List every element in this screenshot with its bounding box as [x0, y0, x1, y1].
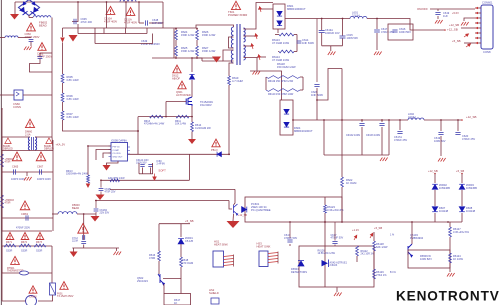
- wire primary top pin: [228, 25, 234, 27]
- wire: [2, 300, 26, 302]
- svg-text:PW VD: PW VD: [113, 147, 121, 149]
- wire left rail: [1, 108, 3, 273]
- wire R61Q line: [101, 179, 189, 181]
- capacitor C620: [455, 133, 460, 135]
- capacitor C617A: [397, 132, 402, 134]
- diode D601b: [277, 21, 282, 26]
- pin down arrow: [86, 184, 91, 189]
- svg-text:R616470R: R616470R: [149, 253, 156, 260]
- warning D613: [212, 139, 220, 147]
- resistor R6128: [373, 241, 376, 251]
- capacitor CM63: [26, 215, 28, 220]
- ground: [227, 221, 240, 228]
- wire: [26, 172, 28, 176]
- wire opto feed line: [110, 188, 235, 190]
- wire: [316, 88, 318, 120]
- ground: [334, 293, 342, 297]
- wire: [191, 80, 193, 97]
- ground: [114, 252, 122, 256]
- wire: [342, 19, 344, 36]
- wire: [0, 94, 14, 96]
- bridge diode: [19, 7, 27, 15]
- svg-text:C6163 100N: C6163 100N: [366, 134, 380, 137]
- wire: [180, 277, 182, 279]
- bridge rectifier D602: [19, 0, 40, 16]
- wire: [381, 120, 383, 122]
- wire: [341, 187, 343, 197]
- resistor R607: [61, 111, 64, 120]
- resistor R61Q: [110, 179, 120, 182]
- svg-text:+5.6V: +5.6V: [452, 11, 459, 15]
- transformer T601 aux winding: [231, 50, 233, 63]
- capacitor CY600a: [83, 235, 85, 240]
- pin +1.2V: [353, 235, 358, 241]
- wire: [229, 201, 232, 210]
- wire: [294, 34, 297, 36]
- fuse F601: [50, 283, 56, 295]
- box D604: [280, 100, 293, 135]
- box D601: [273, 4, 285, 29]
- zener ZD601: [178, 239, 184, 244]
- svg-text:S33R: S33R: [6, 250, 12, 253]
- wire: [361, 120, 363, 122]
- wire: [434, 190, 436, 206]
- resistor R626: [196, 30, 199, 40]
- resistor R619: [228, 76, 231, 85]
- box R6509: [408, 250, 450, 268]
- pin tap2: [254, 33, 258, 39]
- wire: [163, 278, 181, 280]
- warning AC2: [126, 7, 135, 15]
- wire: [159, 223, 190, 225]
- zener ZD603: [459, 184, 465, 189]
- connector CN60: [14, 90, 23, 100]
- wire: [316, 19, 318, 83]
- wire: [258, 8, 273, 10]
- wire: [196, 29, 198, 31]
- connector CON601: [481, 5, 493, 49]
- ground: [461, 22, 469, 26]
- wire: [137, 117, 139, 155]
- resistor R672: [19, 244, 31, 247]
- wire Y-cap feed: [83, 214, 85, 240]
- wire: [277, 29, 279, 33]
- svg-text:IC60B DAP8A: IC60B DAP8A: [111, 140, 127, 143]
- wire source: [191, 106, 193, 122]
- wire right rail upper: [51, 95, 53, 137]
- wire: [361, 127, 363, 155]
- resistor R6119: [266, 76, 300, 79]
- wire: [116, 248, 118, 251]
- capacitor C613: [319, 31, 325, 33]
- capacitor C61B4: [94, 209, 99, 211]
- svg-text:R672: R672: [21, 241, 28, 244]
- wire: [180, 267, 182, 277]
- ground: [96, 195, 105, 201]
- svg-text:S33R: S33R: [21, 250, 27, 253]
- svg-text:+12_SB: +12_SB: [238, 214, 247, 217]
- resistor R6120: [266, 89, 300, 92]
- ground: [435, 20, 443, 24]
- wire: [373, 232, 375, 241]
- inductor L601: [350, 16, 367, 18]
- wire: [196, 56, 198, 58]
- box PC601: [245, 197, 342, 222]
- wire gate: [166, 101, 186, 103]
- ground: [380, 158, 388, 162]
- wire: [163, 284, 165, 294]
- wire IC gnd: [107, 161, 119, 165]
- svg-text:SOFT: SOFT: [158, 169, 166, 173]
- capacitor C615: [340, 36, 346, 38]
- svg-text:+5_SB: +5_SB: [456, 169, 464, 173]
- wire: [38, 295, 53, 301]
- ground: [188, 139, 196, 144]
- resistor R6122: [356, 246, 359, 256]
- wire: [152, 163, 154, 174]
- warning R672: [21, 233, 29, 240]
- wire PB line: [128, 153, 231, 155]
- wire: [40, 52, 52, 54]
- svg-text:C6162 100N: C6162 100N: [346, 134, 360, 137]
- heatsink HS1: [213, 251, 224, 267]
- capacitor C6163: [379, 124, 384, 126]
- wire FB bottom rail: [342, 221, 462, 223]
- capacitor C617b: [332, 242, 337, 244]
- thermistor RT601: [20, 271, 29, 275]
- wire: [461, 190, 463, 206]
- warning C662: [38, 43, 46, 51]
- wire IC pin1: [88, 146, 111, 175]
- wire: [399, 120, 401, 130]
- svg-text:S33R: S33R: [36, 250, 42, 253]
- wire secondary tap 2: [244, 35, 259, 37]
- transformer T601 primary winding: [231, 27, 233, 48]
- wire IC pin3: [103, 153, 111, 158]
- wire: [149, 22, 163, 24]
- wire +5V rail 2: [367, 19, 413, 31]
- sheet border: [0, 0, 2, 305]
- warning CM63: [20, 201, 30, 210]
- resistor R618: [180, 257, 183, 267]
- wire startup vertical: [62, 43, 64, 75]
- wire: [180, 244, 182, 257]
- resistor R616: [158, 251, 161, 261]
- capacitor C662: [38, 57, 43, 59]
- wire: [449, 222, 451, 227]
- wire: [202, 60, 223, 62]
- diode D601a: [277, 11, 282, 16]
- resistor R671: [4, 244, 16, 247]
- wire: [62, 28, 64, 37]
- warning CX600: [29, 286, 37, 293]
- capacitor C614: [297, 41, 302, 43]
- inductor L601B top: [120, 0, 136, 2]
- pin arrow: [463, 33, 469, 38]
- wire: [125, 2, 127, 28]
- ground: [374, 52, 382, 56]
- wire: [2, 272, 20, 274]
- warning C660: [27, 23, 36, 31]
- svg-text:CS VDD: CS VDD: [113, 153, 122, 155]
- ground: [328, 52, 336, 56]
- wire: [289, 244, 291, 246]
- wire: [440, 120, 442, 131]
- wire: [265, 77, 267, 90]
- wire to D604: [250, 71, 282, 100]
- ground: [103, 165, 111, 171]
- wire: [388, 120, 390, 155]
- wire gate drive: [165, 102, 167, 117]
- wire: [51, 246, 53, 273]
- pin CON601-2: [475, 12, 481, 14]
- capacitor C619: [435, 13, 440, 15]
- svg-text:KENOTRONTV: KENOTRONTV: [396, 289, 500, 304]
- wire bottom pin: [229, 63, 234, 76]
- wire: [294, 51, 297, 53]
- capacitor C665: [14, 169, 16, 174]
- wire: [150, 168, 152, 174]
- wire rail2 return: [324, 154, 389, 156]
- svg-text:+12_SB: +12_SB: [447, 28, 458, 32]
- transformer LF601 common-mode choke core: [32, 137, 34, 150]
- wire filter return: [322, 45, 343, 47]
- svg-text:+12_SB: +12_SB: [449, 23, 459, 27]
- wire: [158, 224, 160, 251]
- resistor R611: [176, 115, 189, 118]
- svg-text:CN60CONN: CN60CONN: [13, 102, 21, 109]
- wire: [437, 9, 439, 11]
- svg-text:CM63: CM63: [21, 212, 28, 216]
- svg-text:B 1%: B 1%: [390, 271, 397, 274]
- wire AC line right: [51, 18, 53, 96]
- wire: [35, 136, 52, 138]
- wire IC pin2: [96, 150, 111, 161]
- wire rung4: [2, 245, 52, 247]
- wire: [95, 212, 97, 216]
- wire secondary tap 1: [244, 3, 274, 30]
- wire left rail seg: [1, 151, 3, 232]
- inductor FB602: [33, 16, 51, 18]
- wire feedback hook: [317, 69, 342, 101]
- svg-text:CX600: CX600: [29, 296, 37, 299]
- wire: [356, 256, 358, 262]
- wire CS rail: [138, 116, 192, 118]
- svg-text:R6509 W100N BAY: R6509 W100N BAY: [420, 254, 432, 261]
- svg-text:CON601: CON601: [482, 1, 493, 5]
- wire secondary tap 3: [244, 45, 253, 47]
- pin CON601-5: [475, 27, 481, 29]
- wire: [376, 19, 378, 30]
- resistor R602: [1, 154, 4, 167]
- diode D613: [217, 152, 221, 157]
- wire: [52, 137, 53, 151]
- wire: [73, 248, 75, 252]
- warning Q601: [178, 81, 186, 89]
- wire: [381, 127, 383, 155]
- wire: [300, 89, 303, 91]
- wire feedback vertical: [341, 69, 343, 178]
- wire rung: [2, 150, 53, 152]
- wire AC line left: [0, 37, 5, 39]
- wire Q6103 collector: [411, 222, 413, 244]
- wire: [139, 22, 144, 24]
- wire: [228, 85, 230, 154]
- capacitor C648: [146, 20, 148, 25]
- wire: [28, 15, 30, 18]
- ground earth: [70, 252, 78, 258]
- wire: [51, 273, 53, 283]
- transistor PC601 output: [234, 204, 238, 215]
- junctions: [77, 1, 79, 3]
- LED PC601: [242, 207, 247, 213]
- wire: [100, 192, 102, 195]
- inductor L602: [408, 118, 424, 120]
- wire: [334, 245, 336, 247]
- wire: [275, 34, 279, 36]
- capacitor C667: [40, 169, 42, 174]
- capacitor C61A5: [148, 165, 152, 167]
- diode D608: [459, 207, 465, 212]
- wire: [146, 28, 148, 34]
- svg-text:+5_SB: +5_SB: [374, 226, 382, 230]
- inductor FB600: [58, 212, 77, 214]
- wire rail C: [95, 43, 153, 45]
- pin CON601-6: [475, 32, 481, 34]
- resistor R6123: [324, 205, 327, 213]
- wire: [321, 33, 323, 46]
- wire: [330, 46, 332, 51]
- heatsink HS1 pins: [224, 256, 234, 266]
- wire: [106, 2, 108, 28]
- wire X-cap line: [2, 171, 53, 173]
- box C616: [388, 24, 413, 40]
- wire bulk rail: [63, 25, 229, 28]
- ground: [447, 273, 455, 277]
- box R617: [164, 294, 191, 305]
- wire: [100, 180, 102, 187]
- svg-text:+5_SB: +5_SB: [185, 219, 194, 223]
- wire secondary tap 4: [244, 58, 258, 71]
- wire: [461, 213, 463, 222]
- wire rail y58: [152, 57, 218, 59]
- warning small left: [5, 138, 11, 144]
- svg-text:PB-Q: PB-Q: [211, 148, 218, 152]
- transformer T601 core: [237, 24, 240, 65]
- transformer T601 secondary winding 2: [244, 45, 246, 60]
- wire: [188, 154, 190, 180]
- wire: [175, 40, 177, 46]
- wire ON/OFF: [430, 8, 475, 10]
- svg-text:R671: R671: [6, 241, 13, 244]
- wire: [336, 288, 338, 293]
- ground: [438, 158, 446, 162]
- warning F601: [60, 282, 68, 290]
- wire: [434, 213, 436, 222]
- capacitor C619B: [438, 133, 443, 135]
- resistor R622: [341, 177, 344, 187]
- wire: [52, 140, 54, 151]
- wire rail B: [78, 33, 147, 35]
- svg-text:+12_SB: +12_SB: [466, 115, 476, 119]
- wire: [30, 59, 53, 73]
- wire R6123 branch down: [324, 222, 326, 287]
- diode D607: [432, 207, 438, 212]
- wire: [461, 174, 463, 184]
- wire: [464, 42, 475, 44]
- wire: [434, 174, 436, 184]
- IC600 controller: [111, 143, 128, 162]
- wire: [103, 28, 105, 34]
- warning RT601: [11, 256, 20, 264]
- svg-text:100PF 400V: 100PF 400V: [37, 178, 51, 181]
- wire: [321, 19, 323, 31]
- warning small right: [46, 138, 52, 144]
- wire rung3: [2, 230, 52, 232]
- svg-text:R6120 150 OHM 1/4W: R6120 150 OHM 1/4W: [268, 93, 294, 96]
- wire: [125, 28, 127, 34]
- wire: [342, 39, 344, 46]
- zener ZD602: [432, 184, 438, 189]
- capacitor C61A4: [140, 165, 144, 167]
- heatsink HS2 glyph: [211, 298, 219, 304]
- wire +12V rail 2: [424, 119, 462, 121]
- svg-text:R673: R673: [36, 241, 43, 244]
- resistor R624: [175, 30, 178, 40]
- wire to +12_SB: [413, 29, 445, 31]
- wire: [83, 245, 85, 249]
- wire: [278, 51, 279, 53]
- wire primary tap: [229, 37, 234, 48]
- pin arrow: [465, 43, 471, 48]
- winding LF601a: [28, 137, 30, 150]
- wire: [173, 29, 175, 59]
- warning C665: [12, 152, 22, 161]
- wire: [158, 261, 160, 274]
- wire +12V rail: [293, 119, 408, 121]
- wire: [23, 94, 52, 96]
- ground: [10, 14, 19, 20]
- resistor R6124: [449, 253, 452, 263]
- svg-text:+1.2V: +1.2V: [352, 228, 359, 232]
- wire: [52, 213, 58, 215]
- diode D604b: [284, 122, 289, 127]
- pin +5_SB: [369, 233, 374, 239]
- capacitor C6162: [359, 124, 364, 126]
- resistor R6127: [449, 227, 452, 237]
- wire: [139, 173, 153, 175]
- LED D6504: [298, 261, 304, 266]
- resistor R6113: [279, 33, 294, 36]
- wire: [29, 17, 33, 19]
- wire: [373, 251, 375, 269]
- diode D604a: [284, 109, 289, 114]
- pin CON601-1: [475, 7, 481, 9]
- wire: [191, 132, 193, 140]
- transistor Q601 MOSFET: [186, 97, 192, 106]
- svg-text:ON/OFF: ON/OFF: [417, 7, 428, 11]
- wire AC top bus: [15, 1, 163, 3]
- wire: [14, 2, 16, 14]
- ground: [253, 71, 261, 75]
- wire opto base line: [95, 200, 229, 202]
- warning AC1: [106, 6, 115, 14]
- wire: [62, 102, 64, 111]
- wire: [180, 224, 182, 237]
- wire right rail seg: [52, 151, 54, 232]
- wire: [449, 237, 451, 253]
- wire: [29, 272, 53, 274]
